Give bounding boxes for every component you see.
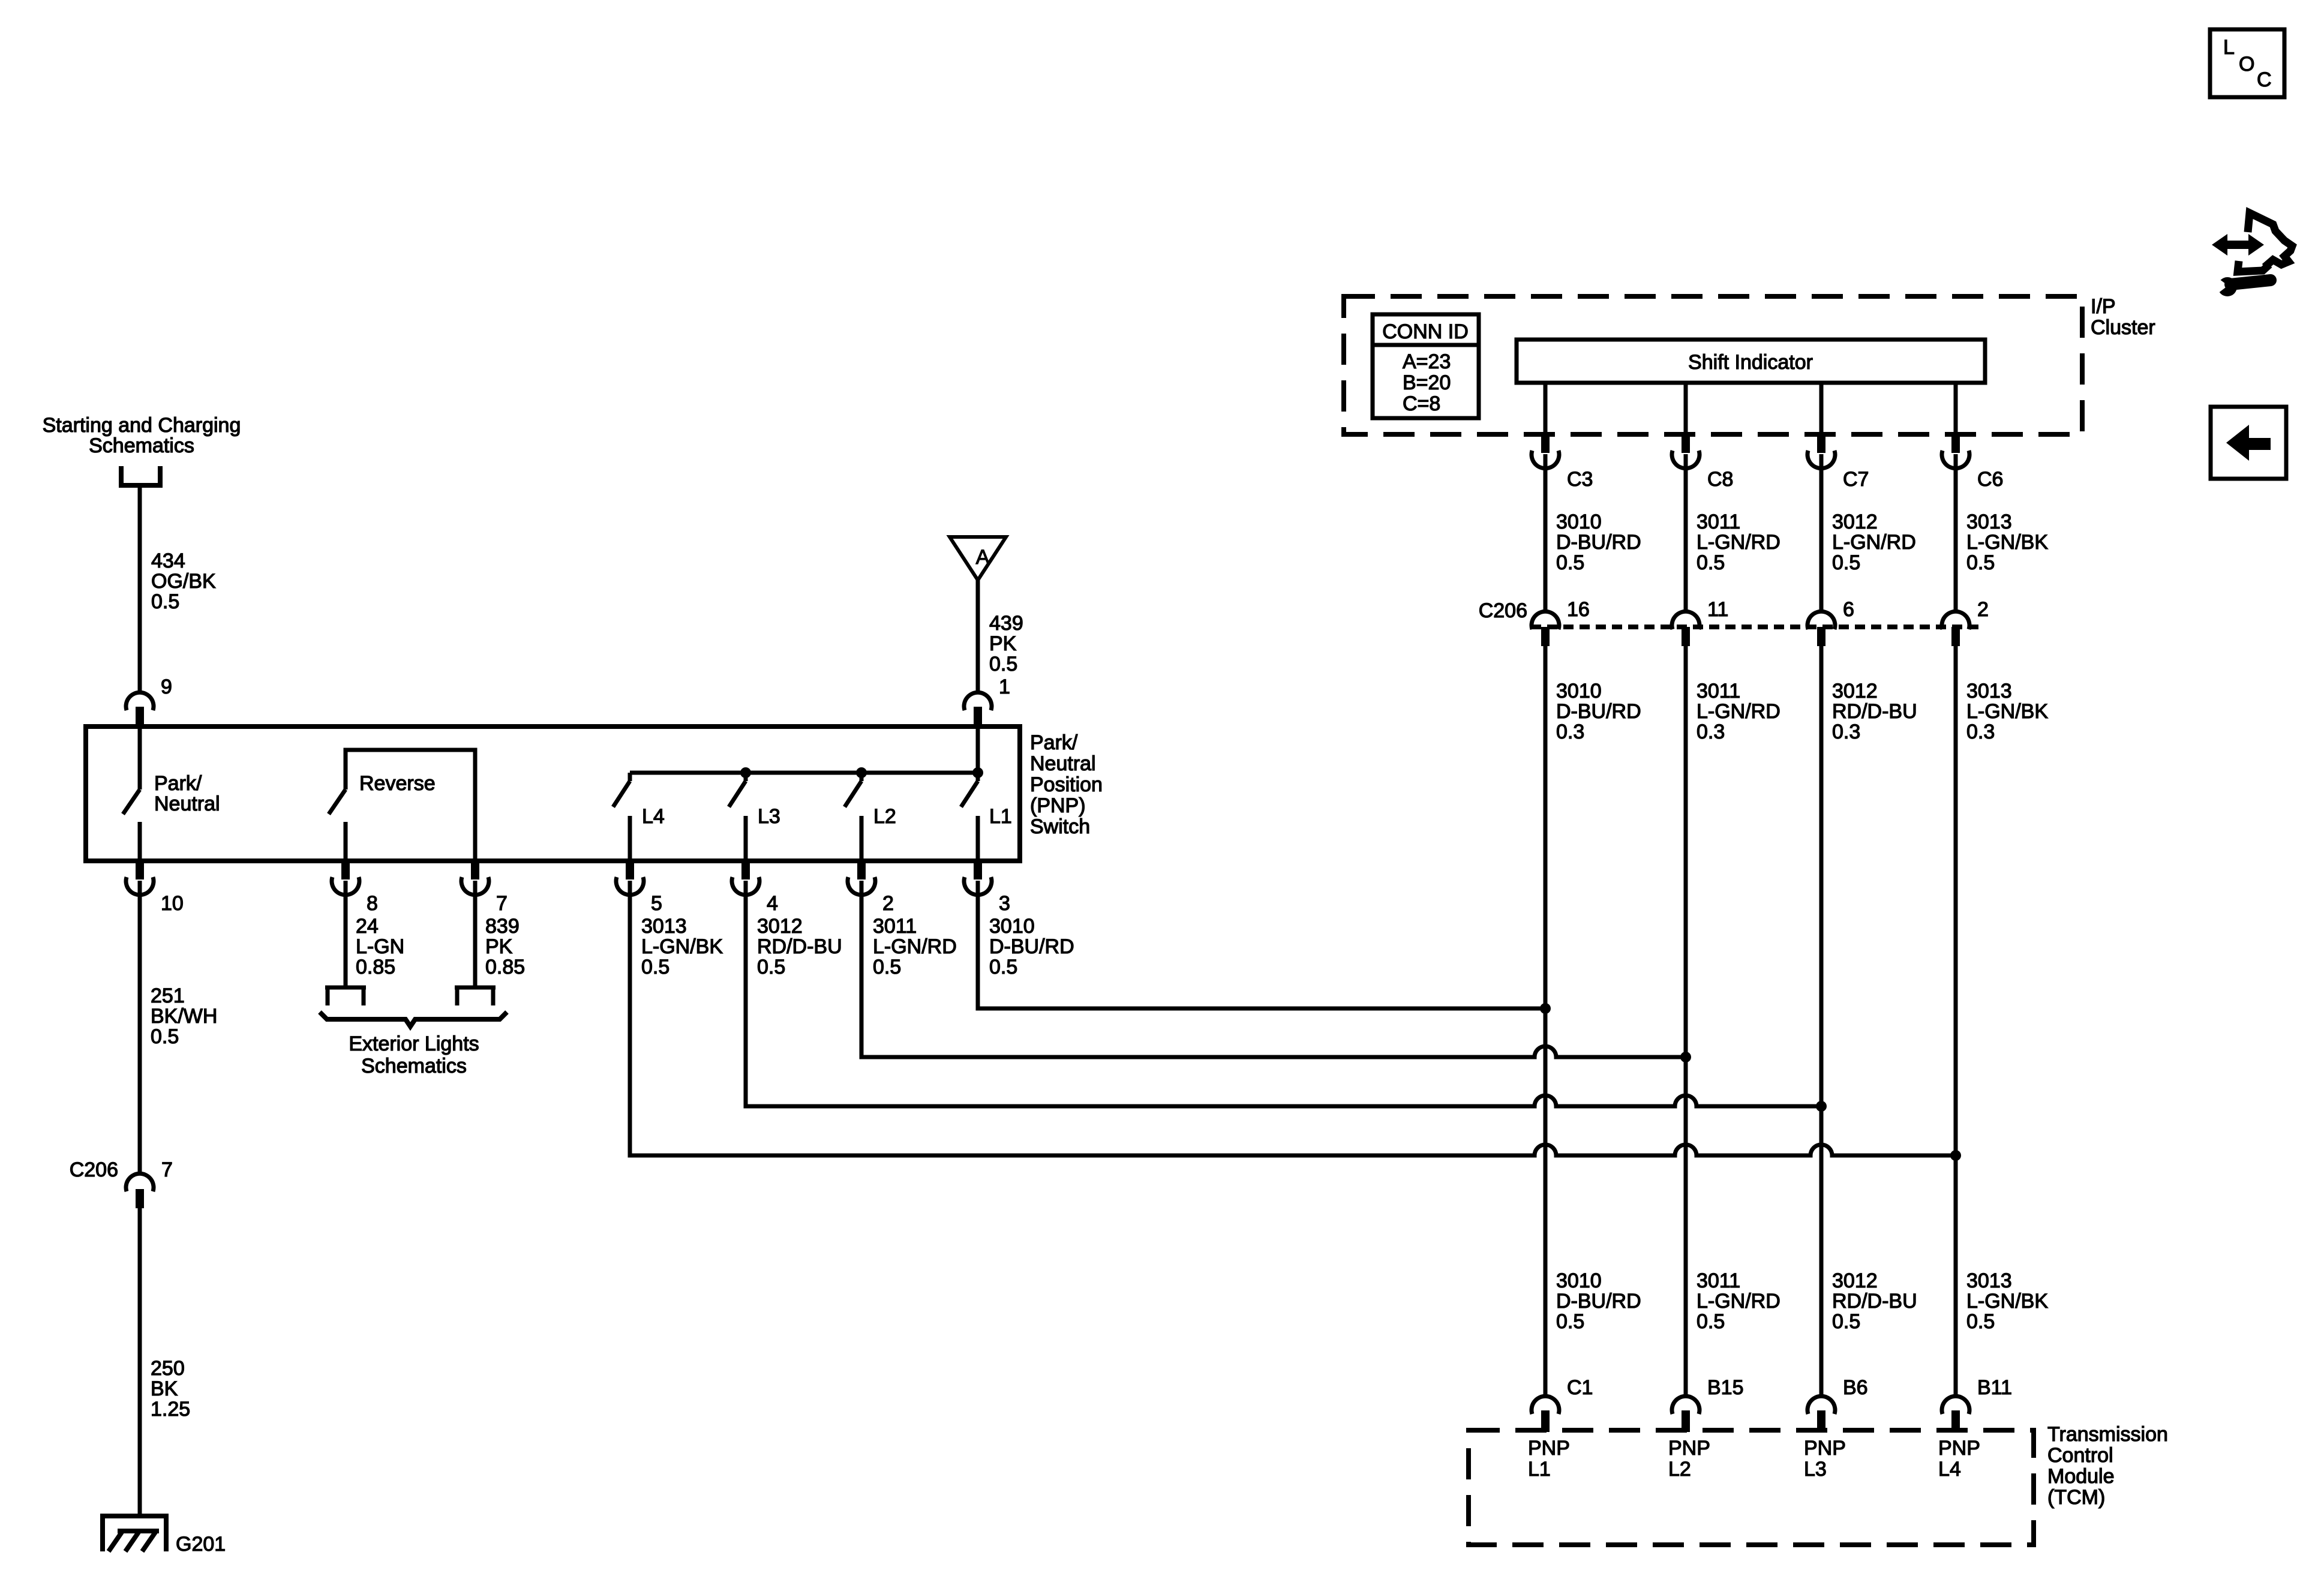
svg-text:O: O [2239,53,2254,76]
svg-text:B11: B11 [1977,1376,2012,1399]
svg-text:Neutral: Neutral [1030,752,1096,775]
svg-text:0.3: 0.3 [1697,721,1725,743]
connector pin B11 (TCM) [1942,1396,1969,1414]
switch L1 [961,781,978,863]
connector pin 9 (PNP switch top) [126,692,154,710]
svg-text:C6: C6 [1977,468,2003,491]
off-page arrow A [950,537,1006,580]
svg-text:CONN ID: CONN ID [1382,320,1469,343]
wire 3011 L-GN/RD 0.5 (cluster to C206) [1684,454,1688,611]
svg-text:0.5: 0.5 [1832,1310,1860,1333]
svg-text:Starting and Charging: Starting and Charging [43,414,241,437]
junction dot node 3013 [1950,1150,1961,1161]
svg-text:D-BU/RD: D-BU/RD [1556,700,1641,723]
svg-text:3010: 3010 [1556,511,1602,533]
svg-text:0.5: 0.5 [1556,551,1584,574]
svg-text:24: 24 [356,915,379,938]
svg-text:C: C [2257,68,2272,91]
wire from pin 1 to L-bus [976,728,980,773]
svg-text:Switch: Switch [1030,815,1090,838]
switch Reverse [329,750,475,863]
svg-text:3013: 3013 [641,915,687,938]
svg-text:D-BU/RD: D-BU/RD [1556,1290,1641,1313]
svg-text:L3: L3 [758,805,780,828]
svg-text:PNP: PNP [1804,1437,1846,1460]
svg-text:PK: PK [989,632,1017,655]
svg-text:L-GN/BK: L-GN/BK [1966,700,2048,723]
svg-text:3010: 3010 [1556,680,1602,703]
wire C3 lead inside I/P cluster [1544,383,1548,437]
svg-text:0.5: 0.5 [1697,1310,1725,1333]
svg-text:251: 251 [151,984,185,1007]
junction dot L2 [856,767,867,778]
ground G201 [103,1516,166,1551]
svg-text:L-GN/RD: L-GN/RD [1697,1290,1780,1313]
svg-text:8: 8 [367,892,378,915]
svg-text:Schematics: Schematics [89,434,194,457]
svg-text:1.25: 1.25 [151,1398,190,1421]
connector C206 cavity 11 [1672,611,1700,629]
svg-text:C1: C1 [1567,1376,1593,1399]
svg-text:RD/D-BU: RD/D-BU [1832,700,1917,723]
svg-text:C206: C206 [1479,599,1527,622]
svg-text:L-GN/RD: L-GN/RD [873,935,957,958]
svg-text:4: 4 [767,892,778,915]
junction dot L3 [740,767,751,778]
wire C8 lead inside I/P cluster [1684,383,1688,437]
icon: LOC box [2210,29,2284,97]
svg-text:3010: 3010 [989,915,1035,938]
svg-text:L3: L3 [1804,1458,1827,1481]
svg-text:Park/: Park/ [154,772,202,795]
svg-text:0.5: 0.5 [757,956,785,978]
svg-text:3013: 3013 [1966,1269,2012,1292]
svg-text:0.5: 0.5 [1832,551,1860,574]
connector pin C7 (I/P cluster) [1817,436,1825,453]
svg-text:L-GN/BK: L-GN/BK [1966,531,2048,554]
svg-text:6: 6 [1843,598,1854,621]
svg-text:3012: 3012 [1832,1269,1878,1292]
svg-text:16: 16 [1567,598,1590,621]
connector pin 5 (PNP switch bottom) [626,862,634,879]
off-page connector (exterior lights, wire 839) [455,987,496,1005]
svg-text:D-BU/RD: D-BU/RD [1556,531,1641,554]
svg-text:BK: BK [151,1377,178,1400]
icon: adjustment tool (arrow and wrench) [2211,213,2292,296]
svg-text:0.5: 0.5 [151,1025,179,1048]
svg-text:L-GN/RD: L-GN/RD [1697,531,1780,554]
svg-text:Reverse: Reverse [359,772,436,795]
svg-text:A: A [976,546,990,569]
svg-text:3012: 3012 [757,915,803,938]
connector pin 8 (PNP switch bottom) [341,862,350,879]
svg-text:3011: 3011 [1697,680,1740,703]
connector pin C3 (I/P cluster) [1541,436,1550,453]
svg-text:2: 2 [882,892,894,915]
svg-text:0.5: 0.5 [1556,1310,1584,1333]
switch L3 [729,781,746,863]
wire 839 PK to exterior lights [473,881,478,987]
svg-text:B6: B6 [1843,1376,1868,1399]
svg-text:L-GN/RD: L-GN/RD [1832,531,1916,554]
svg-text:0.5: 0.5 [1966,551,1995,574]
svg-text:C8: C8 [1707,468,1733,491]
svg-text:3012: 3012 [1832,511,1878,533]
svg-text:0.3: 0.3 [1966,721,1995,743]
svg-text:PNP: PNP [1528,1437,1570,1460]
svg-text:0.5: 0.5 [151,590,179,613]
svg-text:OG/BK: OG/BK [151,570,216,593]
connector pin 2 (PNP switch bottom) [857,862,866,879]
brace: exterior lights schematics [320,1012,507,1026]
svg-text:3013: 3013 [1966,511,2012,533]
svg-text:D-BU/RD: D-BU/RD [989,935,1074,958]
connector C206 cavity 6 [1807,611,1835,629]
svg-text:L4: L4 [642,805,665,828]
svg-text:L4: L4 [1938,1458,1961,1481]
wire 434 OG/BK 0.5 [138,485,142,692]
svg-text:3011: 3011 [1697,1269,1740,1292]
svg-text:0.85: 0.85 [485,956,525,978]
wire 3013 L-GN/BK 0.3 (C206 to TCM) [1954,646,1958,1396]
connector pin C6 (I/P cluster) [1951,436,1960,453]
junction dot node 3012 [1816,1101,1827,1112]
svg-text:(PNP): (PNP) [1030,794,1086,817]
svg-text:(TCM): (TCM) [2047,1486,2105,1509]
svg-text:839: 839 [485,915,520,938]
switch L2 [845,781,861,863]
wire 3013 L-GN/BK from pin 5 to node [630,881,1956,1155]
svg-text:L-GN: L-GN [356,935,404,958]
svg-text:Shift Indicator: Shift Indicator [1688,351,1813,374]
connector pin B15 (TCM) [1672,1396,1700,1414]
wire 24 L-GN to exterior lights [344,881,348,987]
svg-text:PK: PK [485,935,513,958]
svg-text:L2: L2 [873,805,896,828]
connector pin B6 (TCM) [1807,1396,1835,1414]
svg-text:11: 11 [1707,598,1728,621]
svg-text:L: L [2223,36,2235,59]
wire 3011 L-GN/RD 0.3 (C206 to TCM) [1684,646,1688,1396]
svg-text:Schematics: Schematics [361,1055,467,1077]
svg-text:3012: 3012 [1832,680,1878,703]
svg-text:Control: Control [2047,1444,2113,1467]
svg-text:B15: B15 [1707,1376,1744,1399]
wire C6 lead inside I/P cluster [1954,383,1958,437]
svg-text:10: 10 [161,892,184,915]
svg-text:5: 5 [651,892,662,915]
svg-text:3013: 3013 [1966,680,2012,703]
connector pin 7 (PNP switch bottom) [471,862,479,879]
connector pin C8 (I/P cluster) [1682,436,1690,453]
svg-text:0.85: 0.85 [356,956,395,978]
svg-text:0.5: 0.5 [641,956,669,978]
svg-text:C7: C7 [1843,468,1869,491]
switch Park/Neutral [123,728,140,863]
icon: back arrow button [2211,407,2286,479]
svg-text:3010: 3010 [1556,1269,1602,1292]
svg-text:0.5: 0.5 [1697,551,1725,574]
wire 3012 RD/D-BU from pin 4 to node [746,881,1821,1106]
wire 3013 L-GN/BK 0.5 (cluster to C206) [1954,454,1958,611]
svg-text:C3: C3 [1567,468,1593,491]
wire: L-switch common bus [630,773,978,781]
svg-text:0.5: 0.5 [1966,1310,1995,1333]
svg-text:C=8: C=8 [1403,392,1440,415]
svg-text:9: 9 [161,676,172,698]
connector pin C1 (TCM) [1532,1396,1559,1414]
svg-text:L-GN/BK: L-GN/BK [1966,1290,2048,1313]
svg-text:G201: G201 [176,1533,226,1556]
svg-text:BK/WH: BK/WH [151,1005,217,1028]
svg-text:1: 1 [999,676,1010,698]
svg-text:2: 2 [1977,598,1989,621]
svg-text:Neutral: Neutral [154,792,220,815]
junction dot node 3010 [1540,1003,1551,1014]
svg-text:Park/: Park/ [1030,731,1078,754]
svg-text:7: 7 [496,892,508,915]
connector C206 cavity 2 [1942,611,1969,629]
svg-text:L-GN/BK: L-GN/BK [641,935,723,958]
junction dot L1 [972,767,983,778]
connector pin 1 (PNP switch top) [964,692,992,710]
svg-text:0.5: 0.5 [989,956,1017,978]
wire 3010 D-BU/RD 0.5 (cluster to C206) [1544,454,1548,611]
svg-text:0.3: 0.3 [1556,721,1584,743]
wire 251 BK/WH 0.5 [138,881,142,1173]
svg-text:L-GN/RD: L-GN/RD [1697,700,1780,723]
connector C206 in-line (left wire) [126,1173,154,1191]
svg-text:I/P: I/P [2091,295,2116,318]
connector pin 10 (PNP switch bottom) [136,862,144,879]
svg-text:A=23: A=23 [1403,350,1451,373]
connector pin 3 (PNP switch bottom) [974,862,982,879]
svg-text:Position: Position [1030,773,1103,796]
svg-text:Module: Module [2047,1465,2115,1488]
svg-text:3011: 3011 [873,915,917,938]
svg-text:Cluster: Cluster [2091,316,2155,339]
I/P Cluster box (dashed) [1344,296,2082,434]
svg-text:RD/D-BU: RD/D-BU [1832,1290,1917,1313]
wire 3012 RD/D-BU 0.3 (C206 to TCM) [1819,646,1824,1396]
svg-text:0.3: 0.3 [1832,721,1860,743]
svg-text:Exterior Lights: Exterior Lights [349,1032,479,1055]
Transmission Control Module box (dashed) [1469,1430,2034,1545]
svg-text:0.5: 0.5 [989,653,1017,676]
connector C206 dashed line [1531,625,1978,629]
svg-text:L2: L2 [1668,1458,1691,1481]
Shift Indicator block [1517,340,1985,383]
svg-text:434: 434 [151,550,185,572]
wire 3012 L-GN/RD 0.5 (cluster to C206) [1819,454,1824,611]
junction dot node 3011 [1680,1052,1691,1062]
off-page connector bracket (starting and charging) [121,466,160,485]
svg-text:3011: 3011 [1697,511,1740,533]
svg-text:RD/D-BU: RD/D-BU [757,935,842,958]
svg-text:Transmission: Transmission [2047,1423,2168,1446]
svg-text:250: 250 [151,1357,185,1380]
svg-text:439: 439 [989,612,1023,635]
svg-text:3: 3 [999,892,1010,915]
wire 439 PK 0.5 [976,578,980,692]
wire 3010 D-BU/RD 0.3 (C206 to TCM) [1544,646,1548,1396]
wire 3011 L-GN/RD from pin 2 to node [861,881,1686,1057]
wire C7 lead inside I/P cluster [1819,383,1824,437]
svg-text:L1: L1 [989,805,1012,828]
connector C206 cavity 16 [1532,611,1559,629]
wire 3010 D-BU/RD from pin 3 to node [978,881,1545,1008]
svg-text:L1: L1 [1528,1458,1551,1481]
Park/Neutral Position (PNP) Switch box [86,727,1020,861]
off-page connector (exterior lights, wire 24) [325,987,366,1005]
svg-text:PNP: PNP [1938,1437,1980,1460]
connector pin 4 (PNP switch bottom) [741,862,750,879]
CONN ID table [1373,314,1479,418]
svg-text:B=20: B=20 [1403,371,1451,394]
svg-text:0.5: 0.5 [873,956,901,978]
svg-text:7: 7 [161,1158,173,1181]
svg-text:PNP: PNP [1668,1437,1710,1460]
wire 250 BK 1.25 [138,1208,142,1515]
svg-text:C206: C206 [70,1158,118,1181]
switch L4 [613,781,630,863]
